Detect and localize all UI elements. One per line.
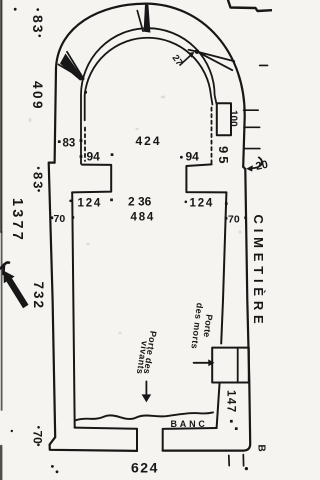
photocopy smudge bbox=[118, 332, 122, 335]
svg-text:20: 20 bbox=[255, 159, 269, 173]
node on apse inner wall lower bbox=[80, 155, 83, 158]
svg-text:147: 147 bbox=[225, 390, 237, 414]
node right of 147 bbox=[235, 427, 238, 430]
apex keystone wedge bbox=[137, 11, 143, 32]
dot below 70 bottom left bbox=[37, 444, 40, 447]
arrow 20 curve bbox=[250, 157, 262, 168]
svg-text:83: 83 bbox=[31, 172, 46, 190]
arrowhead porte des morts bbox=[208, 359, 214, 366]
right wall tick 1 bbox=[244, 109, 259, 111]
nave inner wall right below door bbox=[217, 383, 220, 428]
node 70 left inner bbox=[72, 216, 75, 219]
right fan lines bbox=[189, 50, 235, 70]
svg-text:409: 409 bbox=[30, 81, 45, 111]
svg-text:BANC: BANC bbox=[171, 419, 208, 429]
outer wall: left jog and lower left wall with notch bbox=[49, 163, 137, 451]
svg-text:95: 95 bbox=[216, 146, 231, 166]
node on apse inner wall upper bbox=[80, 139, 83, 142]
facade wall inner edge left of door bbox=[75, 428, 137, 451]
node 70 left outer bbox=[51, 216, 54, 219]
porte des morts doorway rectangle bbox=[212, 348, 249, 383]
outer wall: left side and apse arch bbox=[55, 4, 245, 167]
svg-text:B: B bbox=[256, 445, 267, 452]
svg-text:624: 624 bbox=[131, 460, 159, 476]
page edge artifact left bottom bbox=[0, 446, 2, 480]
dot above 70 bottom left bbox=[37, 426, 40, 429]
bottom tick 1 bbox=[228, 455, 230, 465]
svg-text:83: 83 bbox=[63, 138, 76, 150]
door leaf divider bbox=[237, 348, 239, 383]
dot left of 94 right bbox=[180, 156, 183, 159]
dot bottom right bbox=[245, 467, 248, 470]
dot below 83 mid bbox=[38, 189, 41, 192]
apex keystone fill bbox=[144, 4, 151, 32]
nave inner wall left bbox=[72, 192, 75, 427]
short dash right margin bbox=[260, 64, 268, 66]
page edge artifact left upper bbox=[0, 0, 2, 232]
apse inner wall inner line (double arc) bbox=[85, 38, 213, 121]
bench wavy line bbox=[76, 412, 214, 420]
node on nave right wall bbox=[225, 202, 228, 205]
photocopy smudge bbox=[239, 230, 242, 234]
apse inner wall outer line (double arc) bbox=[81, 28, 216, 164]
dot left of 124 right bbox=[185, 201, 188, 204]
left shoulder step bbox=[72, 165, 111, 193]
dashed chord right bbox=[211, 108, 213, 164]
svg-text:70: 70 bbox=[228, 214, 240, 226]
facade wall right block bbox=[163, 428, 217, 451]
svg-text:424: 424 bbox=[136, 134, 162, 148]
arrow porte des vivants bbox=[145, 381, 147, 395]
right shoulder step bbox=[186, 164, 226, 192]
svg-text:83: 83 bbox=[30, 15, 46, 35]
svg-text:70: 70 bbox=[31, 431, 45, 445]
page edge artifact left middle bbox=[1, 232, 3, 410]
node 70 right inner bbox=[225, 217, 228, 220]
right fan node bbox=[195, 49, 200, 54]
photocopy smudge bbox=[86, 243, 90, 246]
bottom tick 2 bbox=[242, 455, 244, 466]
svg-text:94: 94 bbox=[186, 150, 200, 164]
svg-text:70: 70 bbox=[54, 213, 66, 225]
dot below 83 top bbox=[38, 35, 41, 38]
dot top left corner bbox=[14, 8, 17, 11]
svg-text:100: 100 bbox=[228, 110, 239, 127]
svg-text:2 36: 2 36 bbox=[128, 195, 152, 209]
page edge artifact top right bbox=[228, 0, 272, 11]
node on inner arc left spring bbox=[84, 91, 87, 94]
left wedge V lines bbox=[59, 52, 85, 80]
dashed chord left bbox=[84, 128, 86, 162]
dot right of 124 left bbox=[110, 199, 113, 202]
outer wall: right side below jog down to bottom right corner bbox=[163, 167, 251, 451]
right wall tick 3 bbox=[244, 148, 260, 150]
dot left of 83 label bbox=[58, 140, 61, 143]
dot left margin bbox=[11, 430, 13, 432]
left wedge between arcs bbox=[60, 54, 84, 81]
right wall tick 2 bbox=[244, 126, 260, 128]
svg-text:124: 124 bbox=[78, 198, 103, 210]
north compass arrow bbox=[3, 271, 28, 309]
node 70 right outer bbox=[244, 216, 247, 219]
photocopy smudge bbox=[161, 96, 165, 99]
dot above 147 bbox=[230, 420, 233, 423]
svg-text:124: 124 bbox=[190, 198, 215, 210]
arrowhead 20 bbox=[246, 165, 253, 171]
svg-text:CIMETIÈRE: CIMETIÈRE bbox=[251, 215, 266, 329]
svg-text:484: 484 bbox=[131, 212, 156, 224]
arrow porte des morts bbox=[194, 362, 210, 364]
photocopy smudge bbox=[135, 128, 138, 130]
dot above 83 mid bbox=[37, 167, 40, 170]
dot right of 94 left bbox=[111, 153, 114, 156]
arrow 27 bbox=[180, 55, 192, 66]
north hook glyph bbox=[1, 262, 10, 274]
dot above 83 top bbox=[37, 8, 40, 11]
svg-text:732: 732 bbox=[31, 282, 46, 311]
nave inner wall right bbox=[221, 192, 226, 343]
arrowhead porte des vivants bbox=[142, 394, 152, 402]
niche box 100 bbox=[217, 103, 231, 135]
photocopy smudge bbox=[29, 118, 32, 122]
svg-text:1377: 1377 bbox=[9, 198, 25, 243]
dot bottom left b bbox=[56, 470, 59, 473]
svg-text:94: 94 bbox=[87, 150, 101, 164]
dot bottom left a bbox=[51, 465, 54, 468]
dot left of 124 left bbox=[69, 200, 72, 203]
